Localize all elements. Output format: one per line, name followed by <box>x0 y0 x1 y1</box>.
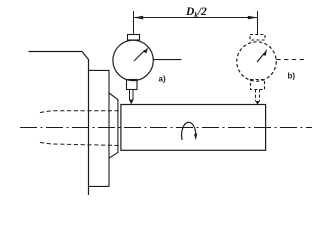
svg-text:a): a) <box>159 75 166 84</box>
dial indicator U-a: stem <box>130 90 134 101</box>
dial indicator U-b: contact tip <box>255 101 259 105</box>
dimension arrow left <box>134 16 143 20</box>
dimension arrow right <box>248 16 257 20</box>
centerline (axis) <box>20 127 312 129</box>
dial indicator U-b: stem housing <box>251 80 265 90</box>
dial indicator U-b: needle <box>257 49 267 62</box>
dimension extension line right <box>257 11 259 35</box>
label a) <box>159 75 166 84</box>
dimension extension line left <box>133 11 135 35</box>
hidden bore line upper <box>40 111 121 113</box>
headstock body outline <box>29 52 89 196</box>
label b) <box>288 72 296 81</box>
rotation arrow on shaft <box>182 122 198 140</box>
faceplate <box>89 70 110 186</box>
dial indicator U-a: body circle <box>113 40 153 80</box>
dial indicator U-a: needle <box>134 47 148 61</box>
hidden bore line lower <box>40 143 121 146</box>
dial indicator U-a: top cap <box>128 35 140 41</box>
svg-text:b): b) <box>288 72 296 81</box>
spindle nose cone <box>109 93 118 158</box>
dial indicator U-a: contact tip <box>129 100 133 105</box>
dial indicator U-b: holder arm (dashed) <box>276 59 305 61</box>
dial indicator U-a: stem housing <box>127 80 138 90</box>
dial indicator U-b: top cap <box>250 35 265 41</box>
dial indicator U-a: holder arm <box>153 59 181 61</box>
dimension line Dk/2 <box>134 17 258 19</box>
dimension text Dk/2 <box>185 6 207 19</box>
shaft (workpiece) <box>121 105 266 151</box>
dial indicator U-b: stem <box>256 90 260 102</box>
svg-text:Dk/2: Dk/2 <box>185 6 207 19</box>
dial indicator U-b (phantom): body circle <box>237 42 276 81</box>
